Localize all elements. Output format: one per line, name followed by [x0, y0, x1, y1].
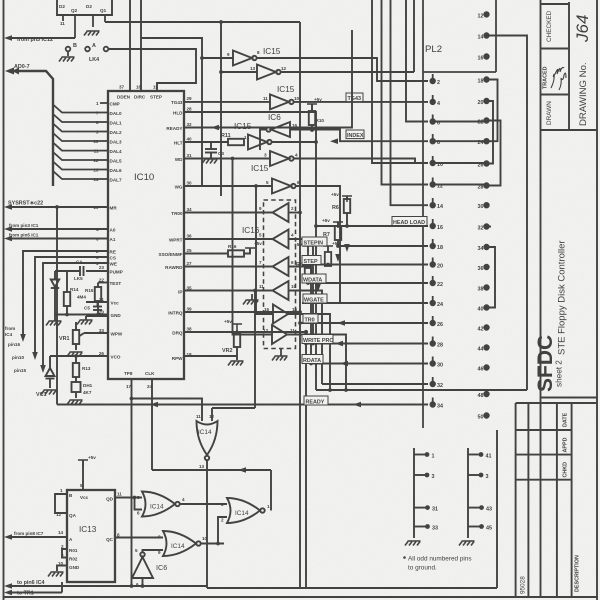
pin PL2-R40	[484, 305, 489, 310]
pin PL2-34	[430, 402, 435, 407]
wire pin17 branch to nor gate	[132, 399, 203, 422]
power +5v R16	[245, 248, 255, 254]
wire QD out	[115, 498, 163, 538]
wire IC13 B-QA feedback loop	[12, 494, 67, 571]
pin PL2-R20	[484, 99, 489, 104]
arrow CLK feedback	[238, 467, 246, 473]
wire pin R18 down to pin R24	[488, 80, 498, 142]
pin PL2-20	[430, 262, 435, 267]
link LK4 common terminal	[104, 47, 109, 52]
wire odd-pin chain 2	[467, 448, 469, 538]
pin PL2-R22	[484, 118, 489, 123]
ground R13	[67, 400, 83, 405]
label box TG43	[346, 93, 363, 102]
crystal XT1	[72, 382, 81, 392]
varicap VC1	[46, 368, 55, 388]
link LK4 terminal B	[66, 47, 71, 52]
label box HEAD LOAD	[392, 217, 427, 226]
wire buffer f out	[287, 335, 346, 391]
wire pin R32 short stub	[488, 226, 491, 228]
wire odd-pin chain 1	[413, 448, 415, 538]
wire hlt inverter out	[271, 141, 316, 143]
pin PL2-R38	[484, 285, 489, 290]
junction dot IP buffer output	[253, 289, 257, 293]
wire DRQ	[184, 331, 306, 333]
wire WGATE row	[302, 302, 428, 304]
wire pin R22 down to pin R28	[488, 121, 501, 186]
title block left edge	[540, 0, 542, 597]
wire inv2 in	[221, 71, 257, 73]
wire buffer f in	[233, 159, 273, 335]
pin PL2-R18	[484, 77, 489, 82]
note all odd pins to ground	[403, 556, 406, 559]
pin PL2-4	[430, 100, 435, 105]
junction dot HLT net	[314, 140, 318, 144]
pin number labels left column	[437, 80, 443, 410]
resistor R11 on HLT	[184, 139, 244, 145]
resistor R16 pullup SSO	[184, 248, 250, 257]
wire RPW	[184, 355, 237, 357]
wire feed pin10 from top	[372, 0, 428, 163]
junction dot VCO node	[74, 354, 78, 358]
buffer IC16a TR00	[273, 203, 289, 222]
pin PL2-R12	[484, 12, 489, 17]
link LK4 terminal A	[85, 47, 90, 52]
pin PL2-R14	[484, 33, 489, 38]
resistor R13	[72, 363, 81, 398]
arrow WRITE PRO row	[335, 341, 343, 347]
wire WRITE PRO row	[306, 343, 428, 345]
junction dots pump rail	[65, 313, 69, 317]
wire GND pin	[57, 566, 67, 572]
arrow RDATA row	[340, 361, 348, 367]
revision table col 2	[527, 403, 529, 597]
ground IC16 bottom	[272, 356, 288, 361]
connector PL2 box right edge	[495, 0, 497, 72]
junction dot INTRQ	[298, 310, 302, 314]
border left	[3, 0, 5, 600]
pin PL2-30	[430, 361, 435, 366]
resistor R10 pullup on index	[307, 104, 317, 110]
arrow on index wire	[330, 138, 338, 144]
wire HLD down x316	[184, 112, 316, 390]
junction dot x221 y72	[219, 70, 223, 74]
resistor R14	[64, 292, 70, 306]
pin odd-1	[425, 452, 430, 457]
wire pin R14 right then down page	[488, 36, 527, 391]
wire SSO/ENMF	[184, 253, 228, 255]
pin PL2-22	[430, 281, 435, 286]
junction dot WG net	[254, 184, 258, 188]
potentiometer VR1	[73, 322, 108, 350]
wire nor vert output down	[206, 460, 208, 588]
inverter IC15e WD	[270, 151, 294, 166]
ground VR1	[67, 352, 83, 357]
label box WGATE	[303, 294, 327, 303]
wire dirc feed	[140, 0, 142, 38]
wire TEST	[98, 282, 108, 284]
pin PL2-8	[430, 139, 435, 144]
inverter IC15f WG	[272, 179, 296, 194]
label box WRITE PRO	[302, 335, 333, 344]
wire WG pin to inverter	[184, 185, 272, 187]
IC10 left pin labels	[110, 102, 123, 360]
PUMP / TEST network	[51, 266, 108, 315]
pin odd-39	[479, 452, 484, 457]
pin odd-31	[425, 505, 430, 510]
wire IP buffer out	[184, 290, 273, 292]
ic IC16 dashed outline	[264, 200, 296, 349]
wire row pin6 to pin22	[435, 121, 484, 123]
pin PL2-R34	[484, 245, 489, 250]
pin PL2-16	[430, 224, 435, 229]
buffer IC16e WG out	[273, 305, 288, 324]
wire long horizontal to HLD vertical	[316, 389, 527, 391]
wire feed pin14 from top	[391, 0, 429, 205]
wire long vertical x300	[299, 22, 301, 588]
junction dot x221	[219, 20, 223, 24]
wire HEAD LOAD row	[316, 225, 428, 227]
wire pin R34 down to pin R40	[488, 247, 495, 308]
arrow READY row right	[353, 402, 361, 408]
wires from right column of PL2	[316, 36, 527, 391]
pin PL2-24	[430, 301, 435, 306]
pin odd-45	[479, 524, 484, 529]
pin PL2-R32	[484, 224, 489, 229]
pin PL2-2	[430, 79, 435, 84]
nor gate IC14c	[163, 531, 201, 556]
ground pump network	[46, 321, 62, 326]
connector PL2 box left edge	[422, 0, 424, 428]
wire to nor gate input x255	[254, 291, 256, 409]
buffer IC16b WPRT	[273, 230, 289, 249]
wire A input	[12, 536, 67, 538]
bus taps to DAL0-7	[53, 105, 100, 180]
wire dirc stub	[140, 38, 142, 91]
diode D1	[54, 276, 56, 279]
wire CLK down	[151, 379, 153, 470]
revision row appd	[516, 454, 572, 456]
ic IC10 body	[108, 91, 184, 379]
wire bottom long horizontal	[207, 587, 497, 589]
wire IC6 out	[260, 130, 266, 151]
pin odd-43	[479, 505, 484, 510]
wire RDATA row	[311, 363, 428, 365]
arrow down R7 lead	[335, 254, 341, 262]
wire buffer e in	[256, 186, 273, 314]
wire gate c out	[143, 544, 225, 553]
pin PL2-R46	[484, 365, 489, 370]
signature squiggle	[551, 68, 564, 89]
wire row pin12 to pin28	[435, 184, 484, 186]
bus arrowheads AD0-7	[5, 68, 14, 75]
resistor R15	[95, 287, 101, 301]
label box WDATA	[302, 274, 326, 283]
resistor R9	[323, 246, 333, 252]
junction dot x202 y58	[200, 56, 204, 60]
wire x255 to nor input	[212, 407, 255, 409]
pin odd-41	[479, 473, 484, 478]
connector PL2 box step	[423, 71, 496, 73]
wire VCO	[50, 356, 108, 368]
signal from IC4 pin16 to RE	[23, 251, 108, 368]
wire QD branch to pin6	[135, 498, 143, 510]
pin PL2-R48	[484, 392, 489, 397]
wire drop x221 to IC16	[220, 22, 222, 196]
wire gate a out to gate b	[180, 503, 227, 505]
traced box bottom	[541, 94, 570, 96]
wire STEP row	[302, 264, 428, 266]
ground chain 1	[405, 541, 421, 546]
pin PL2-14	[430, 203, 435, 208]
pin number labels right column	[478, 13, 484, 420]
checked box bottom	[541, 48, 570, 50]
pin PL2-32	[430, 382, 435, 387]
IC11 pin stubs	[63, 15, 105, 38]
potentiometer VR2	[184, 330, 240, 360]
revision row date	[516, 429, 572, 431]
junction dot DRQ	[304, 330, 308, 334]
wire WPRT buffer in	[289, 239, 314, 344]
wire RAWRD buffer in	[289, 267, 312, 364]
arrow READY row left	[150, 402, 158, 408]
sfdc block bottom	[541, 397, 598, 399]
wire buffer e out	[288, 314, 330, 390]
wire READY pin	[184, 30, 352, 128]
pin PL2-R16	[484, 54, 489, 59]
wire CLK feedback horizontal	[152, 469, 271, 471]
label box TR0	[303, 314, 318, 323]
ground C5	[77, 320, 93, 325]
junction dot pin17 branch	[130, 397, 134, 401]
junction dot HEAD LOAD / HLD	[314, 224, 318, 228]
bottom rail	[55, 314, 108, 316]
wire lk4 to step	[108, 49, 196, 91]
wire IC10 pin17 down	[131, 379, 133, 586]
wire pin R20 down to pin R26	[488, 101, 493, 164]
title column divider	[568, 2, 570, 130]
signal from IC4 pin10 to CS	[35, 257, 108, 355]
wire long vertical x306	[305, 332, 307, 588]
power +5v VR2	[232, 324, 242, 330]
wire STEPIN row	[338, 245, 428, 247]
ground IC16 left	[243, 300, 259, 305]
arrow TR0 row	[337, 320, 345, 326]
ic IC13 body	[67, 490, 115, 582]
IC13 pin labels	[69, 493, 89, 570]
pin odd-3	[425, 473, 430, 478]
buffer IC16f WD out	[272, 325, 287, 344]
inverter IC15d HLT	[248, 135, 272, 150]
wire READY vertical	[56, 207, 58, 405]
nor gate IC14 vertical	[197, 421, 218, 460]
wire INTRQ	[184, 311, 300, 313]
pin PL2-26	[430, 321, 435, 326]
wire TG43 pin to inverter	[184, 101, 270, 103]
wire gate b input 2	[218, 517, 227, 544]
inverter IC15a	[233, 51, 257, 66]
wire nor vert input 12	[211, 408, 213, 421]
ground top ic	[84, 31, 100, 36]
wire feed pin12 from top	[382, 0, 429, 185]
pin PL2-R28	[484, 183, 489, 188]
ground VR2	[228, 361, 244, 366]
IC10 right pin numbers	[187, 96, 193, 357]
wire IC6 input from pin6 line	[142, 578, 144, 586]
junction dot gate2 input	[216, 542, 220, 546]
pin PL2-12	[430, 182, 435, 187]
wire x497 up	[496, 430, 498, 588]
inverter IC15b	[257, 65, 281, 80]
wire inv2 out	[280, 71, 414, 73]
IC10 left pin stubs	[100, 103, 108, 179]
wire TR0 row	[300, 322, 428, 324]
border right	[596, 0, 598, 600]
wire RAWRD buffer out	[184, 266, 273, 268]
label box STEP	[302, 256, 321, 265]
wire TR00 buffer in	[289, 212, 301, 214]
label box STEPIN	[302, 237, 327, 246]
wire gate c input 9 from IC6	[143, 550, 164, 552]
junction dot QD branch	[133, 496, 137, 500]
drawn box bottom / drawing no bottom	[541, 129, 598, 131]
checked box top	[541, 3, 570, 5]
ground IC13	[48, 572, 64, 577]
ground LK4 B	[59, 57, 75, 62]
label box INDEX	[346, 130, 364, 139]
label box READY	[304, 396, 328, 405]
capacitor C4	[83, 266, 85, 276]
buffer IC16c RAWRD	[273, 257, 289, 276]
wire inv1 out to pin2	[256, 58, 428, 81]
pin PL2-R26	[484, 161, 489, 166]
wire ddenn feed	[129, 0, 131, 91]
inverter IC6 up	[132, 552, 153, 578]
wire y38 to x202	[141, 38, 202, 186]
revision table col 1	[515, 403, 517, 597]
wire pin32 row	[322, 383, 428, 385]
wire inv1 input	[202, 57, 233, 59]
pin PL2-R30	[484, 203, 489, 208]
junction dot WPRT net	[311, 342, 315, 346]
wire WD pin to inverter	[184, 158, 270, 160]
ground C3	[202, 159, 218, 164]
pin PL2-R36	[484, 265, 489, 270]
wire IP buffer in	[289, 291, 323, 385]
pin PL2-18	[430, 244, 435, 249]
pin PL2-R24	[484, 139, 489, 144]
wire WDATA row	[306, 282, 428, 284]
revision table top	[516, 402, 597, 404]
arrow down R6 lead	[344, 244, 350, 252]
resistor R8	[303, 246, 313, 252]
pin PL2-10	[430, 161, 435, 166]
ic IC11 partial top	[57, 0, 112, 15]
wire R01 R02 tie	[62, 549, 67, 558]
wire TG43 inverter to pin4	[293, 101, 428, 103]
wire WG inverter out	[295, 186, 340, 303]
IC10 left pin numbers	[93, 101, 104, 356]
pin odd-33	[425, 524, 430, 529]
node column	[54, 271, 56, 276]
wire top rail y22	[105, 21, 300, 23]
signal from IC4 pin15 to WE	[43, 263, 108, 368]
pin PL2-R50	[484, 413, 489, 418]
wire row pin10 to pin26	[435, 162, 484, 164]
pin PL2-R42	[484, 325, 489, 330]
nor gate IC14b	[227, 498, 265, 523]
inverter IC15c TG43	[270, 94, 294, 109]
resistor R7	[333, 222, 343, 228]
arrow down R8 lead	[315, 284, 321, 292]
capacitor C5	[86, 302, 108, 310]
inverter IC6 index	[266, 122, 290, 137]
revision table col 4	[571, 403, 573, 597]
border bottom	[4, 596, 599, 598]
IC10 right pin labels	[159, 100, 184, 361]
power +5v IC13	[78, 460, 88, 466]
label box RDATA	[302, 355, 323, 364]
pin PL2-6	[430, 119, 435, 124]
wire TR00 buffer out	[184, 212, 273, 214]
revision table col 3	[556, 403, 558, 597]
nor gate IC14a	[142, 492, 180, 517]
wire index from pin8	[290, 130, 428, 142]
junction dot WD net	[231, 157, 235, 161]
capacitor C3	[205, 142, 217, 158]
wire row pin8 to pin24	[435, 140, 484, 142]
resistor R6	[342, 196, 352, 202]
pin PL2-28	[430, 341, 435, 346]
wire PUMP	[86, 270, 108, 272]
ground chain 2	[459, 541, 475, 546]
wire WD inverter out to pl2	[293, 159, 415, 164]
wire READY row	[57, 404, 428, 406]
junction dot TR00 buffer input	[298, 211, 302, 215]
wire inv2 output up	[413, 0, 415, 72]
arrow on ready wire	[211, 125, 219, 131]
wire QC out	[115, 537, 163, 539]
wire feedback from gate output	[270, 470, 272, 511]
pin PL2-R44	[484, 345, 489, 350]
wire WPRT buffer out	[184, 238, 273, 240]
buffer IC16d IP	[273, 281, 289, 300]
wire drop x406 to pin6	[406, 0, 428, 122]
revision row chkd	[516, 479, 572, 481]
